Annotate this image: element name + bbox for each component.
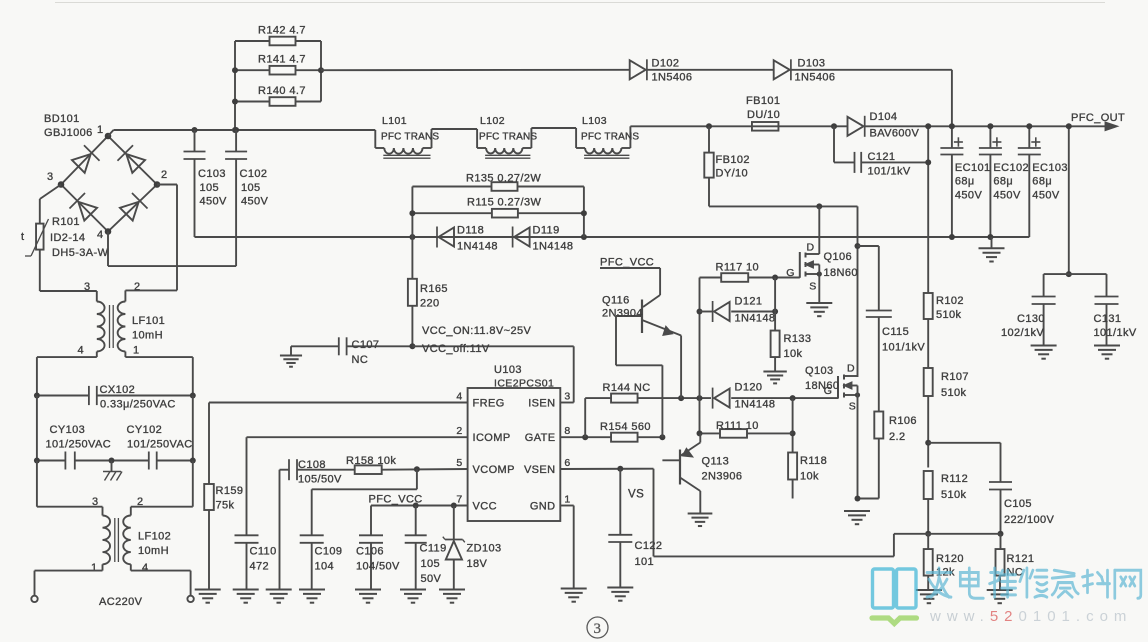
svg-text:C121: C121 xyxy=(868,151,896,163)
svg-text:450V: 450V xyxy=(955,190,983,202)
svg-text:GATE: GATE xyxy=(525,432,556,444)
svg-text:18N60: 18N60 xyxy=(805,380,839,392)
svg-text:1: 1 xyxy=(133,345,140,357)
svg-text:R154 560: R154 560 xyxy=(600,421,651,433)
svg-text:R115 0.27/3W: R115 0.27/3W xyxy=(467,197,542,209)
svg-text:3: 3 xyxy=(564,391,570,403)
svg-text:10mH: 10mH xyxy=(132,330,163,342)
svg-text:D102: D102 xyxy=(652,58,680,70)
svg-text:R165: R165 xyxy=(420,283,448,295)
svg-text:ISEN: ISEN xyxy=(528,398,555,410)
svg-text:105: 105 xyxy=(200,182,220,194)
svg-text:VCC_ON:11.8V~25V: VCC_ON:11.8V~25V xyxy=(422,325,531,337)
svg-text:R107: R107 xyxy=(941,371,969,383)
svg-text:C102: C102 xyxy=(240,168,268,180)
svg-text:450V: 450V xyxy=(1032,190,1060,202)
svg-text:C115: C115 xyxy=(882,326,909,338)
svg-text:ZD103: ZD103 xyxy=(467,543,502,555)
svg-text:AC220V: AC220V xyxy=(99,596,143,608)
svg-text:R158 10k: R158 10k xyxy=(346,455,396,467)
svg-text:450V: 450V xyxy=(200,196,228,208)
svg-text:D103: D103 xyxy=(798,58,826,70)
svg-text:C119: C119 xyxy=(420,543,447,555)
svg-text:DY/10: DY/10 xyxy=(716,168,749,180)
svg-text:450V: 450V xyxy=(993,190,1021,202)
svg-text:D: D xyxy=(807,242,815,254)
svg-text:C107: C107 xyxy=(352,339,380,351)
svg-text:3: 3 xyxy=(594,621,602,637)
svg-text:C109: C109 xyxy=(315,546,343,558)
svg-text:C122: C122 xyxy=(635,540,663,552)
svg-text:18N60: 18N60 xyxy=(824,267,858,279)
svg-text:2N3904: 2N3904 xyxy=(602,308,643,320)
svg-text:ICOMP: ICOMP xyxy=(473,432,511,444)
svg-text:C108: C108 xyxy=(298,459,326,471)
svg-text:7: 7 xyxy=(456,494,462,506)
svg-text:450V: 450V xyxy=(241,196,269,208)
svg-text:FREG: FREG xyxy=(473,398,505,410)
svg-text:G: G xyxy=(824,385,833,397)
svg-text:R142 4.7: R142 4.7 xyxy=(258,25,306,37)
svg-text:D120: D120 xyxy=(735,382,763,394)
svg-text:5: 5 xyxy=(456,457,462,469)
svg-text:101/1kV: 101/1kV xyxy=(882,342,925,354)
svg-text:50V: 50V xyxy=(421,573,442,585)
svg-text:C110: C110 xyxy=(250,546,277,558)
svg-text:3: 3 xyxy=(84,281,91,293)
svg-text:S: S xyxy=(849,401,856,413)
svg-text:PFC_VCC: PFC_VCC xyxy=(369,494,423,506)
svg-text:GND: GND xyxy=(530,501,556,513)
svg-text:4: 4 xyxy=(78,345,85,357)
svg-text:68μ: 68μ xyxy=(955,176,975,188)
svg-text:PFC_OUT: PFC_OUT xyxy=(1071,112,1125,124)
svg-text:2: 2 xyxy=(456,425,462,437)
svg-text:2.2: 2.2 xyxy=(889,431,906,443)
svg-text:EC102: EC102 xyxy=(993,162,1029,174)
svg-text:101: 101 xyxy=(635,556,655,568)
svg-text:VS: VS xyxy=(628,489,644,501)
svg-text:ICE2PCS01: ICE2PCS01 xyxy=(494,377,554,389)
svg-text:FB101: FB101 xyxy=(746,95,780,107)
svg-text:4: 4 xyxy=(142,562,149,574)
svg-text:GBJ1006: GBJ1006 xyxy=(44,127,93,139)
svg-text:R106: R106 xyxy=(889,415,917,427)
svg-text:PFC TRANS: PFC TRANS xyxy=(581,132,639,143)
svg-text:DH5-3A-W: DH5-3A-W xyxy=(52,247,109,259)
svg-text:L102: L102 xyxy=(480,115,505,127)
svg-text:68μ: 68μ xyxy=(1032,176,1052,188)
svg-text:Q103: Q103 xyxy=(805,365,834,377)
svg-text:L101: L101 xyxy=(382,115,407,127)
svg-text:510k: 510k xyxy=(941,489,967,501)
svg-text:1: 1 xyxy=(97,124,104,136)
svg-text:D118: D118 xyxy=(457,225,484,237)
svg-text:D: D xyxy=(847,363,855,375)
svg-text:PFC TRANS: PFC TRANS xyxy=(479,132,537,143)
svg-text:R112: R112 xyxy=(941,473,968,485)
svg-text:PFC_VCC: PFC_VCC xyxy=(600,257,654,269)
svg-text:R144 NC: R144 NC xyxy=(603,382,651,394)
svg-text:VCC_off:11V: VCC_off:11V xyxy=(422,343,490,355)
svg-text:VCOMP: VCOMP xyxy=(473,464,515,476)
svg-text:R118: R118 xyxy=(800,455,827,467)
svg-text:101/250VAC: 101/250VAC xyxy=(46,439,112,451)
svg-text:LF102: LF102 xyxy=(138,531,171,543)
svg-text:Q116: Q116 xyxy=(602,295,630,307)
svg-text:FB102: FB102 xyxy=(716,154,750,166)
svg-text:EC103: EC103 xyxy=(1032,162,1068,174)
svg-text:G: G xyxy=(786,267,795,279)
svg-text:1N4148: 1N4148 xyxy=(457,241,498,253)
svg-text:105: 105 xyxy=(241,182,261,194)
svg-text:101/1kV: 101/1kV xyxy=(1094,327,1137,339)
svg-text:1N4148: 1N4148 xyxy=(533,241,574,253)
svg-text:C106: C106 xyxy=(356,546,384,558)
svg-text:ID2-14: ID2-14 xyxy=(50,232,85,244)
svg-text:CY102: CY102 xyxy=(127,424,163,436)
svg-text:75k: 75k xyxy=(216,500,235,512)
svg-text:510k: 510k xyxy=(936,309,962,321)
svg-text:C103: C103 xyxy=(198,168,226,180)
svg-text:D104: D104 xyxy=(870,111,898,123)
svg-text:www.520101.com: www.520101.com xyxy=(929,608,1132,625)
svg-text:1N4148: 1N4148 xyxy=(735,399,776,411)
svg-text:4: 4 xyxy=(97,229,104,241)
svg-text:1N4148: 1N4148 xyxy=(735,313,776,325)
svg-text:1: 1 xyxy=(91,562,98,574)
svg-text:R117 10: R117 10 xyxy=(716,262,760,274)
svg-text:R159: R159 xyxy=(216,485,244,497)
svg-text:BD101: BD101 xyxy=(44,113,80,125)
svg-text:10k: 10k xyxy=(800,471,819,483)
svg-text:2: 2 xyxy=(134,281,141,293)
svg-text:220: 220 xyxy=(420,298,440,310)
svg-text:R141 4.7: R141 4.7 xyxy=(258,54,306,66)
svg-text:R120: R120 xyxy=(936,553,964,565)
svg-text:1N5406: 1N5406 xyxy=(795,72,836,84)
svg-text:104/50V: 104/50V xyxy=(356,561,400,573)
svg-text:CY103: CY103 xyxy=(50,424,86,436)
svg-text:510k: 510k xyxy=(941,387,967,399)
svg-text:2N3906: 2N3906 xyxy=(702,471,743,483)
svg-text:1: 1 xyxy=(564,494,570,506)
svg-text:104: 104 xyxy=(315,561,335,573)
svg-text:DU/10: DU/10 xyxy=(747,109,780,121)
svg-text:PFC TRANS: PFC TRANS xyxy=(381,132,439,143)
svg-text:R121: R121 xyxy=(1007,553,1035,565)
svg-text:CX102: CX102 xyxy=(100,384,136,396)
svg-text:0.33μ/250VAC: 0.33μ/250VAC xyxy=(100,399,176,411)
svg-text:R135 0.27/2W: R135 0.27/2W xyxy=(466,173,541,185)
svg-text:1N5406: 1N5406 xyxy=(652,72,693,84)
svg-text:t: t xyxy=(21,231,24,243)
svg-text:105/50V: 105/50V xyxy=(298,474,342,486)
svg-text:R102: R102 xyxy=(936,295,964,307)
svg-text:VCC: VCC xyxy=(473,501,497,513)
svg-text:U103: U103 xyxy=(494,364,522,376)
svg-text:6: 6 xyxy=(564,457,570,469)
svg-text:101/1kV: 101/1kV xyxy=(868,166,911,178)
svg-text:VSEN: VSEN xyxy=(524,464,556,476)
svg-text:Q113: Q113 xyxy=(702,456,730,468)
svg-text:101/250VAC: 101/250VAC xyxy=(127,439,193,451)
svg-text:C131: C131 xyxy=(1094,313,1122,325)
svg-text:10mH: 10mH xyxy=(138,545,169,557)
svg-text:R133: R133 xyxy=(784,333,812,345)
svg-text:2: 2 xyxy=(137,496,144,508)
svg-text:105: 105 xyxy=(421,558,441,570)
svg-text:C130: C130 xyxy=(1017,313,1045,325)
svg-text:R140 4.7: R140 4.7 xyxy=(258,85,306,97)
svg-text:222/100V: 222/100V xyxy=(1004,514,1055,526)
svg-text:L103: L103 xyxy=(582,115,607,127)
svg-text:10k: 10k xyxy=(784,348,803,360)
svg-text:4: 4 xyxy=(456,391,462,403)
svg-text:102/1kV: 102/1kV xyxy=(1001,327,1044,339)
svg-text:R111 10: R111 10 xyxy=(716,420,759,432)
svg-text:BAV600V: BAV600V xyxy=(870,128,920,140)
svg-text:LF101: LF101 xyxy=(132,315,165,327)
svg-text:472: 472 xyxy=(250,561,270,573)
svg-text:NC: NC xyxy=(352,354,369,366)
svg-text:D119: D119 xyxy=(533,225,560,237)
svg-text:Q106: Q106 xyxy=(824,251,853,263)
svg-text:2: 2 xyxy=(161,169,168,181)
svg-text:D121: D121 xyxy=(735,296,763,308)
svg-text:R101: R101 xyxy=(52,216,80,228)
svg-text:68μ: 68μ xyxy=(993,176,1013,188)
svg-text:C105: C105 xyxy=(1004,498,1032,510)
svg-text:EC101: EC101 xyxy=(955,162,991,174)
svg-text:3: 3 xyxy=(47,171,54,183)
svg-text:18V: 18V xyxy=(467,558,488,570)
svg-text:8: 8 xyxy=(564,425,570,437)
svg-text:3: 3 xyxy=(92,496,99,508)
svg-text:S: S xyxy=(809,281,816,293)
